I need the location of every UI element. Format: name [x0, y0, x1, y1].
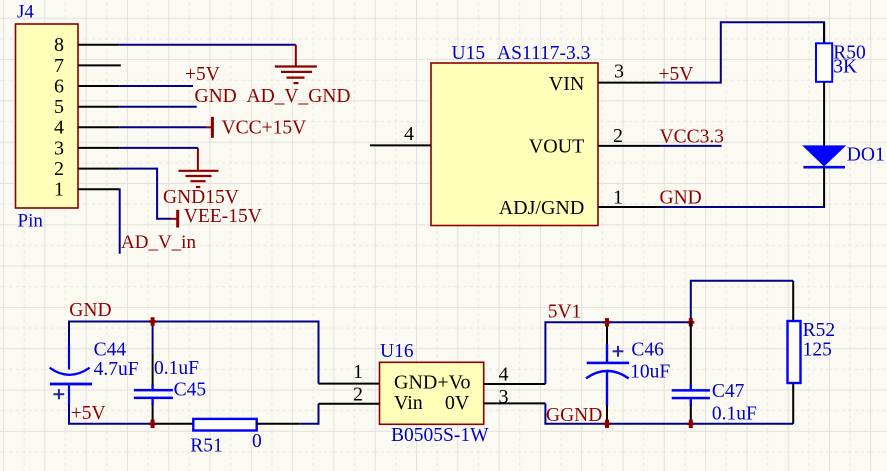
svg-text:0: 0 — [252, 431, 262, 452]
wire pin8 to AD_V_GND — [120, 44, 296, 46]
wire R51 to U16 pin2 — [299, 404, 318, 424]
pin 3 of U15 — [598, 61, 660, 83]
wire pin3 to GND15V — [120, 147, 198, 149]
connector J4 — [16, 24, 79, 208]
svg-text:DO1: DO1 — [847, 144, 885, 165]
ground AD_V_GND — [275, 45, 317, 83]
svg-text:4.7uF: 4.7uF — [94, 359, 139, 380]
wire U15 pin2 VCC3.3 — [660, 145, 722, 147]
junction C47 top — [687, 318, 694, 326]
R51 left pin — [153, 423, 194, 425]
svg-text:AD_V_in: AD_V_in — [121, 232, 196, 253]
capacitor C47 — [672, 322, 710, 424]
module U16 — [380, 362, 484, 424]
svg-text:GND15V: GND15V — [163, 187, 239, 208]
wire U15 pin1 GND to diode — [660, 206, 825, 208]
svg-text:2: 2 — [54, 158, 64, 180]
svg-text:GND: GND — [195, 86, 237, 107]
svg-text:0.1uF: 0.1uF — [712, 403, 757, 424]
svg-text:5: 5 — [54, 96, 64, 118]
pin 2 of U15 — [598, 125, 660, 147]
svg-text:VCC3.3: VCC3.3 — [660, 126, 724, 147]
pin 5 of J4 — [54, 96, 120, 118]
pin 4 of U16 — [484, 363, 546, 385]
wire +5V bottom rail — [69, 406, 153, 424]
svg-text:B0505S-1W: B0505S-1W — [391, 425, 489, 446]
svg-text:U15: U15 — [452, 43, 486, 64]
wire U16 pin4 to 5V1 rail — [545, 322, 691, 384]
diode DO1 — [803, 146, 845, 207]
pin 1 of U16 — [319, 361, 380, 384]
wire U15 pin3 to top — [660, 22, 824, 82]
pin 2 of J4 — [54, 158, 120, 180]
svg-text:GND+Vo: GND+Vo — [394, 371, 470, 393]
wire pin6 +5V — [120, 85, 193, 87]
svg-text:C47: C47 — [712, 381, 745, 402]
svg-text:5V1: 5V1 — [548, 301, 582, 322]
resistor R51 — [193, 419, 256, 431]
svg-text:VEE-15V: VEE-15V — [184, 206, 262, 227]
R51 right pin — [257, 423, 300, 425]
svg-text:8: 8 — [54, 34, 64, 56]
svg-text:Pin: Pin — [18, 211, 44, 232]
power VEE-15V — [171, 210, 178, 228]
pin 1 of U15 — [598, 187, 660, 209]
resistor R52 — [788, 281, 801, 424]
svg-text:+5V: +5V — [71, 403, 106, 424]
svg-text:6: 6 — [54, 75, 64, 97]
pin 4 of U15 — [370, 123, 431, 145]
regulator U15 — [431, 63, 598, 226]
svg-text:3: 3 — [54, 137, 64, 159]
svg-text:1: 1 — [353, 361, 363, 383]
svg-text:U16: U16 — [380, 341, 414, 362]
svg-text:1: 1 — [613, 187, 623, 209]
svg-text:10uF: 10uF — [630, 362, 670, 383]
svg-text:GND: GND — [69, 300, 111, 321]
pin 6 of J4 — [54, 75, 120, 97]
svg-text:3K: 3K — [833, 57, 857, 78]
svg-text:0V: 0V — [445, 392, 470, 414]
pin 3 of U16 — [484, 386, 546, 408]
svg-text:0.1uF: 0.1uF — [154, 358, 199, 379]
pin 3 of J4 — [54, 137, 120, 159]
svg-text:J4: J4 — [17, 1, 34, 22]
resistor R50 — [816, 23, 832, 149]
svg-text:VOUT: VOUT — [529, 135, 585, 157]
svg-text:VIN: VIN — [549, 73, 585, 95]
junction C47 bottom — [687, 420, 694, 428]
svg-text:+5V: +5V — [185, 64, 220, 85]
svg-text:GGND: GGND — [546, 405, 602, 426]
svg-text:4: 4 — [54, 117, 64, 139]
svg-text:1: 1 — [54, 179, 64, 201]
svg-text:R51: R51 — [190, 435, 223, 456]
pin 1 of J4 — [54, 179, 119, 201]
junction C46 bottom — [604, 420, 611, 428]
svg-text:4: 4 — [499, 363, 509, 385]
junction C45 bottom — [149, 420, 156, 428]
svg-text:2: 2 — [353, 384, 363, 406]
svg-text:R52: R52 — [803, 320, 836, 341]
pin 4 of J4 — [54, 117, 120, 139]
wire pin2 to VEE-15V — [120, 169, 171, 219]
wire U16 pin3 to bottom rail — [545, 403, 793, 423]
capacitor C45 — [134, 322, 173, 424]
pin 2 of U16 — [319, 384, 380, 406]
svg-text:Vin: Vin — [394, 392, 423, 414]
svg-text:3: 3 — [499, 386, 509, 408]
svg-text:C44: C44 — [94, 340, 127, 361]
pin 8 of J4 — [54, 34, 120, 56]
ground GND15V — [179, 148, 219, 187]
wire top loop to R52 — [691, 281, 793, 323]
wire GND top rail — [69, 322, 319, 384]
junction C45 top — [149, 317, 156, 325]
svg-text:2: 2 — [613, 125, 623, 147]
capacitor C44 — [50, 344, 92, 424]
wire pin5 GND — [120, 106, 197, 108]
wire pin4 to VCC+15V — [120, 126, 206, 128]
svg-text:AD_V_GND: AD_V_GND — [247, 86, 351, 107]
junction C46 top — [604, 318, 611, 326]
svg-text:3: 3 — [614, 61, 624, 83]
pin 7 of J4 — [54, 55, 121, 77]
svg-text:125: 125 — [803, 340, 832, 361]
svg-text:4: 4 — [404, 123, 414, 145]
svg-text:ADJ/GND: ADJ/GND — [499, 197, 585, 219]
svg-text:AS1117-3.3: AS1117-3.3 — [497, 43, 590, 64]
wire pin1 AD_V_in — [118, 189, 121, 254]
capacitor C46 — [586, 322, 629, 424]
svg-text:7: 7 — [54, 55, 64, 77]
power VCC+15V — [206, 117, 212, 138]
svg-text:GND: GND — [660, 188, 702, 209]
svg-text:C46: C46 — [631, 340, 664, 361]
svg-text:VCC+15V: VCC+15V — [222, 117, 307, 138]
svg-text:C45: C45 — [174, 380, 207, 401]
